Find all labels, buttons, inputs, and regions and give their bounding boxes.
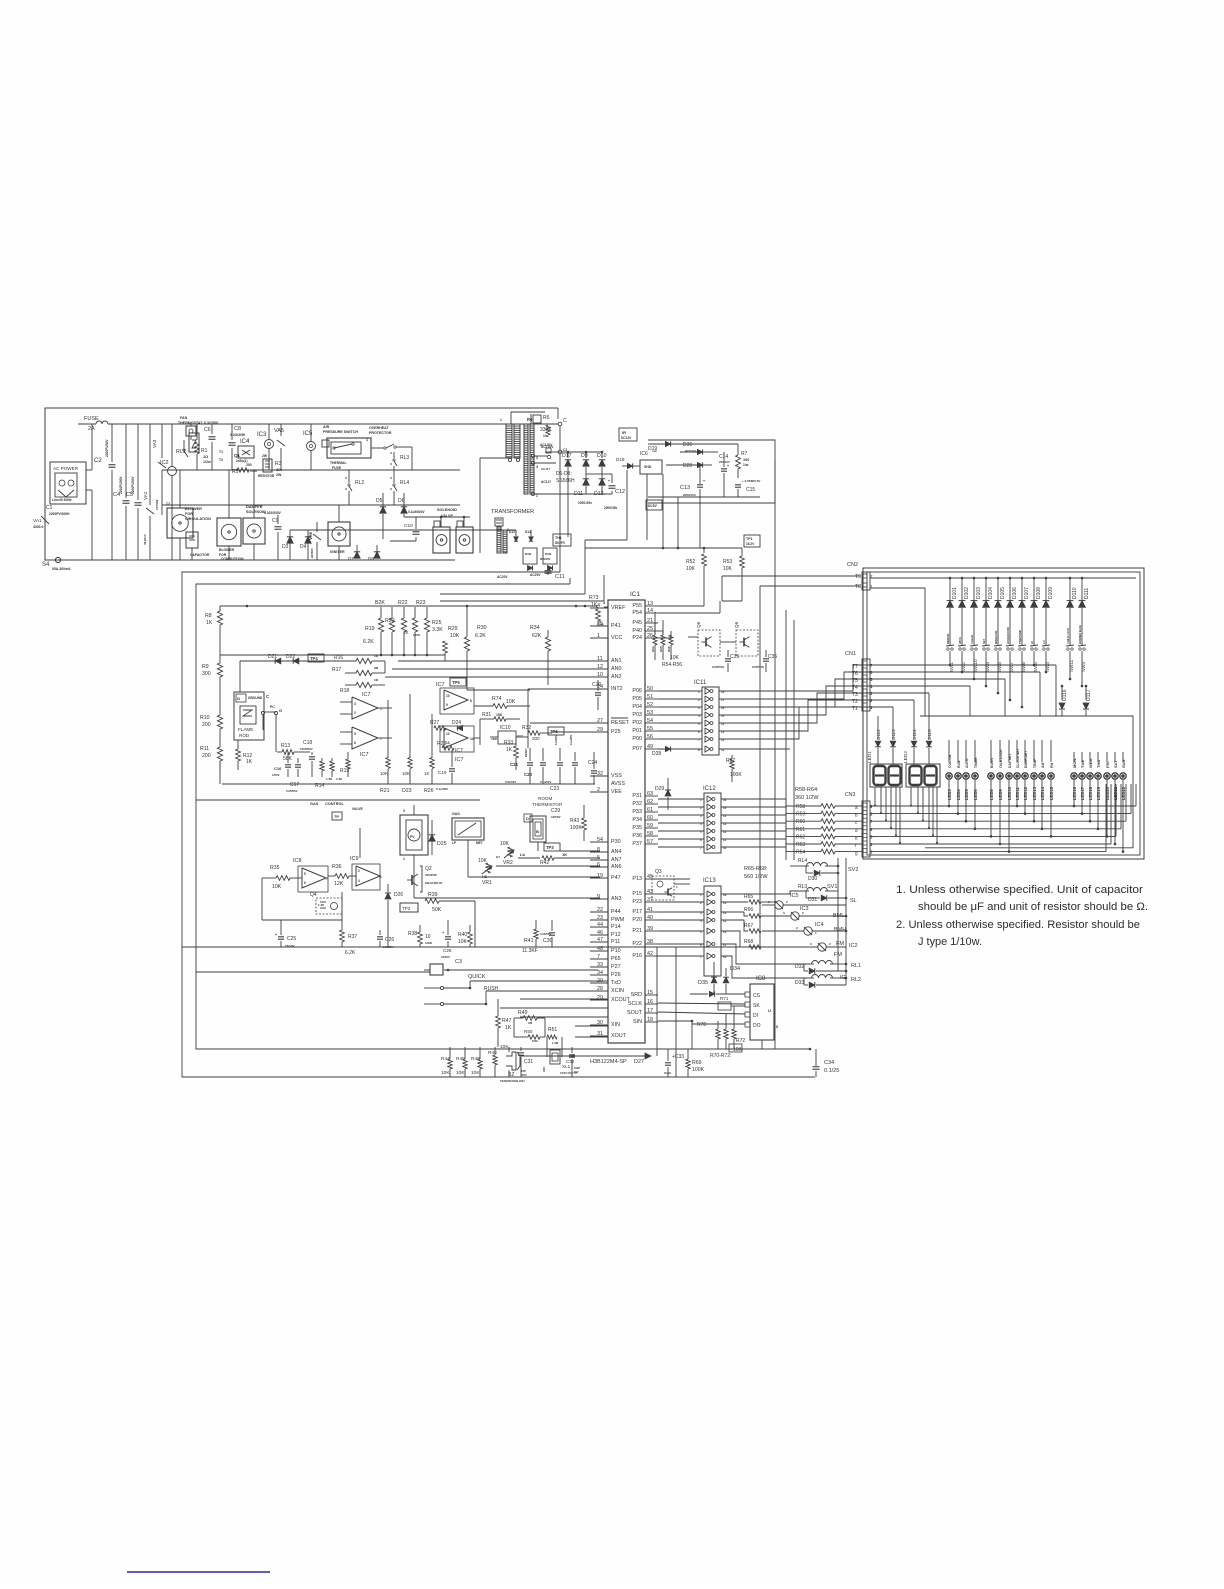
VREF wire / analog box top bbox=[220, 605, 596, 608]
op-amp IC7b bbox=[340, 727, 392, 758]
svg-text:LED14: LED14 bbox=[1040, 786, 1045, 800]
gas control valve solenoid bbox=[400, 809, 428, 861]
nested wire from transformer 1 bbox=[440, 572, 604, 601]
svg-text:VA1: VA1 bbox=[33, 518, 42, 524]
svg-text:H?: H? bbox=[496, 855, 500, 859]
indicator LED19 THU bbox=[1095, 752, 1101, 830]
boxed test point TP3 bbox=[544, 843, 560, 851]
note D1-D8 SS566H bbox=[556, 471, 575, 484]
resistor R32 200 bbox=[522, 725, 552, 741]
wire AN1 bbox=[398, 660, 590, 662]
svg-text:R65-R68:: R65-R68: bbox=[744, 866, 768, 872]
diode D106 bbox=[1007, 577, 1018, 618]
capacitor C4 bbox=[113, 424, 130, 560]
svg-text:D13: D13 bbox=[509, 530, 515, 534]
svg-text:R48: R48 bbox=[488, 1050, 497, 1056]
svg-text:D5: D5 bbox=[376, 498, 383, 504]
svg-text:D104: D104 bbox=[988, 587, 994, 599]
relay coil RL1 box bbox=[189, 433, 199, 452]
svg-text:10M: 10M bbox=[532, 1039, 538, 1043]
svg-text:1: 1 bbox=[403, 857, 405, 861]
svg-text:R74: R74 bbox=[492, 696, 502, 702]
resistor R41 C30 bbox=[522, 920, 555, 954]
svg-text:+: + bbox=[727, 464, 729, 468]
svg-text:C32: C32 bbox=[566, 1059, 575, 1064]
svg-text:3: 3 bbox=[810, 942, 812, 946]
svg-text:1/w: 1/w bbox=[543, 434, 549, 438]
svg-text:CN3: CN3 bbox=[845, 792, 855, 798]
svg-text:2200P/250V: 2200P/250V bbox=[105, 439, 109, 457]
svg-text:LED13: LED13 bbox=[1032, 786, 1037, 800]
bridge diode D10 bbox=[597, 452, 607, 474]
crystal XL1 bbox=[542, 1027, 577, 1075]
svg-text:Q4: Q4 bbox=[310, 892, 317, 898]
panel top bus T9 bbox=[870, 577, 1136, 579]
svg-text:R67: R67 bbox=[744, 923, 753, 929]
svg-text:2: 2 bbox=[354, 711, 356, 715]
svg-text:FOR: FOR bbox=[185, 512, 193, 516]
diode D111 bbox=[1079, 577, 1090, 618]
svg-text:C: C bbox=[563, 418, 567, 424]
svg-text:D111: D111 bbox=[1084, 588, 1090, 599]
relay coil RL1 with diode D32 bbox=[762, 952, 861, 974]
svg-text:XL1: XL1 bbox=[562, 1064, 571, 1069]
svg-text:4: 4 bbox=[870, 684, 873, 689]
svg-text:5: 5 bbox=[354, 732, 356, 736]
boxed label DC5V bbox=[646, 500, 662, 510]
svg-text:VEE: VEE bbox=[611, 789, 622, 795]
svg-text:C8: C8 bbox=[234, 426, 241, 432]
relay contact RL1 bbox=[176, 440, 188, 457]
svg-text:+C33: +C33 bbox=[672, 1054, 684, 1060]
relay contact RL2 bbox=[345, 477, 364, 491]
svg-text:1/50V: 1/50V bbox=[272, 773, 280, 777]
capacitor C36 bbox=[752, 650, 777, 672]
svg-text:1K: 1K bbox=[562, 852, 567, 857]
diode D3 bbox=[282, 530, 293, 560]
svg-text:16/50V: 16/50V bbox=[441, 955, 450, 959]
svg-text:1: 1 bbox=[536, 494, 538, 498]
svg-text:IC8: IC8 bbox=[293, 858, 302, 864]
indicator LED3 COL:ON bbox=[946, 740, 952, 807]
IC11 output stair wires to CN1 T lines bbox=[719, 665, 870, 749]
svg-text:D36: D36 bbox=[683, 442, 692, 448]
svg-text:100K: 100K bbox=[413, 633, 421, 637]
boxed label TP1 16.2V bbox=[744, 535, 760, 547]
svg-text:P06: P06 bbox=[632, 688, 642, 694]
resistor R38 10 1/2W bbox=[408, 925, 432, 947]
svg-text:P15: P15 bbox=[632, 891, 642, 897]
resistor R59 bbox=[796, 811, 862, 817]
wire horizontal y548 feeding pullups bbox=[585, 547, 742, 556]
svg-text:LP: LP bbox=[452, 841, 457, 845]
svg-text:C23: C23 bbox=[550, 786, 559, 792]
svg-text:6.3/250V: 6.3/250V bbox=[204, 421, 219, 425]
svg-text:P24: P24 bbox=[632, 635, 642, 641]
resistor R13 58K bbox=[277, 743, 310, 762]
wire primary to valve rail bbox=[480, 458, 508, 553]
wire P40 to R55 bbox=[658, 631, 663, 635]
svg-text:C20: C20 bbox=[592, 682, 601, 688]
svg-text:R14: R14 bbox=[315, 783, 324, 789]
svg-text:PRESSURE SWITCH: PRESSURE SWITCH bbox=[323, 430, 358, 434]
svg-text:10K: 10K bbox=[450, 633, 460, 639]
svg-text:THU: THU bbox=[1096, 760, 1101, 768]
capacitor C19 bbox=[436, 750, 455, 791]
svg-text:THERMAL: THERMAL bbox=[330, 461, 347, 465]
svg-text:C36: C36 bbox=[768, 654, 777, 660]
svg-text:P01: P01 bbox=[632, 728, 642, 734]
wire XOUT row bbox=[575, 1036, 608, 1038]
svg-text:FM: FM bbox=[836, 941, 844, 947]
capacitor C32 bbox=[566, 1047, 580, 1077]
resistor R34 62K bbox=[530, 625, 551, 685]
flame rod assembly bbox=[234, 692, 276, 740]
svg-text:1K: 1K bbox=[246, 759, 253, 765]
svg-text:AN0: AN0 bbox=[611, 666, 622, 672]
gas meter indicator bbox=[452, 812, 484, 845]
svg-text:3: 3 bbox=[783, 911, 785, 915]
switch common wire T8 bbox=[870, 588, 925, 716]
svg-text:SV2: SV2 bbox=[848, 867, 858, 873]
capacitor C15 bbox=[735, 479, 760, 497]
svg-text:P55: P55 bbox=[632, 603, 642, 609]
svg-text:IC8: IC8 bbox=[756, 976, 766, 982]
label 10K R54-R56 bbox=[662, 655, 682, 668]
capacitor C31 bbox=[518, 1047, 533, 1077]
resistor R29 10K bbox=[443, 626, 460, 661]
svg-text:P03: P03 bbox=[632, 712, 642, 718]
driver array IC13 bbox=[700, 878, 727, 976]
svg-text:TUE: TUE bbox=[1080, 760, 1085, 768]
diode D35 bbox=[690, 980, 745, 997]
label H3B122M4-SP D27 bbox=[560, 1056, 644, 1065]
svg-text:D3: D3 bbox=[282, 544, 289, 550]
svg-text:IC7: IC7 bbox=[436, 682, 445, 688]
ground bus y947 bbox=[182, 946, 810, 948]
svg-text:05A-300mA: 05A-300mA bbox=[52, 567, 71, 571]
svg-text:D33: D33 bbox=[795, 980, 804, 986]
svg-text:LED2: LED2 bbox=[903, 751, 909, 763]
driver array IC11 bbox=[694, 680, 725, 755]
resistor R15 bbox=[340, 752, 350, 777]
svg-text:R58: R58 bbox=[796, 804, 805, 810]
svg-text:AN1: AN1 bbox=[611, 658, 622, 664]
svg-text:C29: C29 bbox=[551, 808, 560, 814]
svg-text:100P: 100P bbox=[574, 1066, 580, 1070]
svg-text:OVERHEAT: OVERHEAT bbox=[369, 426, 390, 430]
igniter bbox=[328, 505, 350, 560]
transformer T1 primary winding bbox=[500, 418, 520, 462]
svg-text:R9: R9 bbox=[202, 664, 209, 670]
svg-text:Q3: Q3 bbox=[655, 869, 662, 875]
svg-text:R28: R28 bbox=[437, 741, 446, 747]
resistor R30 6.2K bbox=[464, 605, 486, 690]
svg-text:3: 3 bbox=[358, 879, 360, 883]
photocoupler IC2 bbox=[160, 424, 177, 560]
svg-text:R1: R1 bbox=[201, 448, 208, 454]
svg-text:RL2: RL2 bbox=[355, 480, 364, 486]
svg-text:C16: C16 bbox=[274, 766, 282, 771]
capacitor box for blower bbox=[186, 532, 210, 560]
svg-text:R72: R72 bbox=[736, 1038, 745, 1044]
svg-text:D108: D108 bbox=[1036, 587, 1042, 599]
svg-text:LED6: LED6 bbox=[973, 789, 978, 800]
IC1 right side pin labels bbox=[627, 601, 658, 1025]
indicator LED8 BURN bbox=[988, 740, 994, 838]
svg-text:C35: C35 bbox=[730, 654, 739, 660]
svg-text:P21: P21 bbox=[632, 928, 642, 934]
resistor R45 bbox=[456, 1047, 467, 1077]
wire bus across middle of power box bbox=[162, 470, 516, 530]
svg-text:1K: 1K bbox=[206, 620, 213, 626]
svg-text:P13: P13 bbox=[632, 876, 642, 882]
resistor R50 bbox=[514, 1026, 545, 1043]
svg-text:TxD: TxD bbox=[611, 980, 621, 986]
svg-text:200: 200 bbox=[532, 736, 540, 741]
resistor R8 1K bbox=[205, 607, 223, 655]
svg-text:T3: T3 bbox=[852, 692, 858, 698]
diode D101 bbox=[947, 577, 958, 618]
svg-text:XOUT: XOUT bbox=[611, 1033, 627, 1039]
wire XCOUT row bbox=[520, 1016, 608, 1018]
boxed test point TP4 bbox=[308, 654, 324, 662]
svg-text:Line40 60Hz: Line40 60Hz bbox=[52, 498, 72, 502]
svg-text:R8: R8 bbox=[205, 613, 212, 619]
svg-text:R21: R21 bbox=[380, 788, 390, 794]
svg-text:H3B122M4-SP: H3B122M4-SP bbox=[590, 1059, 627, 1065]
svg-text:LED10: LED10 bbox=[1007, 786, 1012, 800]
indicator LED22 SUN bbox=[1120, 752, 1126, 853]
svg-text:1K: 1K bbox=[505, 1025, 512, 1031]
boxed label TP bbox=[332, 812, 342, 820]
svg-text:R7: R7 bbox=[741, 451, 748, 457]
svg-text:1/w: 1/w bbox=[743, 463, 749, 467]
capacitor C30 resistor R40 bbox=[458, 925, 472, 947]
svg-text:RESET: RESET bbox=[611, 720, 630, 726]
transistor Q6a with bias resistors R54-R56 bbox=[651, 612, 720, 660]
relay coil RL2 with diode D33 bbox=[762, 975, 861, 988]
svg-text:IC4: IC4 bbox=[815, 922, 824, 928]
diode D117 bbox=[1083, 685, 1092, 716]
svg-text:+: + bbox=[608, 479, 610, 483]
svg-text:10K: 10K bbox=[723, 566, 733, 572]
svg-text:COMBUSTION: COMBUSTION bbox=[221, 557, 244, 561]
svg-text:BURNER BLUE: BURNER BLUE bbox=[1078, 625, 1082, 644]
svg-text:HI: HI bbox=[1030, 641, 1034, 644]
svg-text:2W: 2W bbox=[262, 454, 268, 458]
svg-text:R50: R50 bbox=[524, 1029, 533, 1034]
svg-text:VA6: VA6 bbox=[308, 531, 313, 540]
connector CN1 bbox=[845, 651, 870, 711]
resistor R46 bbox=[471, 1047, 482, 1077]
svg-text:IC7: IC7 bbox=[455, 748, 463, 754]
resistor R36 12K bbox=[328, 864, 356, 887]
varistor VA1 bbox=[33, 505, 49, 540]
svg-text:ROD: ROD bbox=[239, 733, 250, 738]
switch RUSH bbox=[424, 986, 608, 1006]
svg-text:AN3: AN3 bbox=[611, 896, 622, 902]
svg-text:VSS: VSS bbox=[611, 773, 622, 779]
wire P54 to R53 bbox=[658, 601, 720, 613]
svg-text:1: 1 bbox=[500, 418, 502, 422]
svg-text:R37: R37 bbox=[348, 934, 357, 940]
capacitor C18 bbox=[300, 740, 315, 777]
svg-text:TP: TP bbox=[334, 815, 339, 819]
svg-text:D106: D106 bbox=[1012, 587, 1018, 599]
svg-text:P05: P05 bbox=[632, 696, 642, 702]
key switch SW2 WICK bbox=[958, 618, 966, 673]
svg-text:C11: C11 bbox=[555, 574, 565, 580]
svg-text:2000/35v: 2000/35v bbox=[604, 506, 618, 510]
capacitor C29 bbox=[551, 808, 561, 819]
svg-text:P30: P30 bbox=[611, 839, 621, 845]
indicator LED20 FRI bbox=[1104, 752, 1110, 838]
resistor R53 10K pullup bbox=[723, 556, 744, 601]
svg-text:+: + bbox=[442, 931, 444, 935]
amp section wires bbox=[262, 850, 418, 920]
svg-text:AM: AM bbox=[1041, 763, 1045, 768]
svg-text:10K: 10K bbox=[686, 566, 696, 572]
svg-text:2700S9: 2700S9 bbox=[155, 499, 159, 510]
svg-text:1K: 1K bbox=[424, 771, 431, 776]
svg-text:2200PV/300H: 2200PV/300H bbox=[49, 512, 70, 516]
wire AN0 bbox=[392, 668, 590, 670]
resistor R58 bbox=[796, 804, 862, 810]
svg-text:R41: R41 bbox=[524, 938, 534, 944]
svg-text:10K: 10K bbox=[670, 655, 680, 661]
svg-text:PWM: PWM bbox=[611, 917, 625, 923]
diode D36 bbox=[680, 442, 718, 455]
svg-text:AC POWER: AC POWER bbox=[53, 466, 79, 471]
boxed label TH1 D02PV bbox=[553, 534, 571, 546]
svg-text:P34: P34 bbox=[632, 817, 642, 823]
svg-text:P12: P12 bbox=[611, 932, 621, 938]
svg-text:WICK: WICK bbox=[958, 637, 962, 644]
svg-text:0.1u/50V: 0.1u/50V bbox=[540, 780, 551, 784]
svg-text:1: 1 bbox=[870, 705, 873, 710]
svg-text:Q6: Q6 bbox=[734, 621, 739, 628]
resistor R48 10K bbox=[488, 1044, 509, 1077]
resistor R6 330K bbox=[527, 415, 554, 449]
fuse F1 2A bbox=[78, 416, 558, 432]
svg-text:D28: D28 bbox=[652, 751, 661, 757]
svg-text:0.1u5/630V: 0.1u5/630V bbox=[408, 510, 425, 514]
svg-text:C30: C30 bbox=[543, 938, 553, 944]
dc box bottom bus bbox=[648, 444, 760, 497]
svg-text:D102: D102 bbox=[964, 587, 970, 599]
resistor R31 15K bbox=[480, 712, 520, 721]
svg-text:R73: R73 bbox=[589, 595, 599, 601]
boxed test point TP6 bbox=[548, 727, 564, 735]
svg-text:R39: R39 bbox=[428, 892, 438, 898]
svg-text:6: 6 bbox=[870, 827, 873, 832]
svg-text:R30: R30 bbox=[477, 625, 487, 631]
svg-text:R54: R54 bbox=[651, 646, 655, 652]
svg-text:R19: R19 bbox=[365, 626, 375, 632]
blower for circulation motor M1 bbox=[166, 470, 211, 560]
svg-text:AVSS: AVSS bbox=[611, 781, 625, 787]
varistor VA6 bbox=[308, 522, 321, 560]
resistor R35 10K bbox=[262, 865, 302, 890]
svg-text:IC2: IC2 bbox=[849, 943, 858, 949]
svg-text:2: 2 bbox=[358, 869, 360, 873]
svg-text:C13: C13 bbox=[680, 485, 690, 491]
svg-text:6: 6 bbox=[354, 741, 356, 745]
svg-text:D34: D34 bbox=[730, 966, 740, 972]
svg-text:AN7: AN7 bbox=[611, 857, 622, 863]
svg-text:DVB: DVB bbox=[525, 552, 532, 556]
svg-text:R64: R64 bbox=[796, 850, 805, 856]
svg-text:0.1u/50V: 0.1u/50V bbox=[570, 735, 573, 745]
resistor R7 bbox=[736, 444, 750, 478]
wire P55 to R52 bbox=[658, 605, 704, 606]
svg-text:TRANSFORMER: TRANSFORMER bbox=[491, 509, 534, 515]
svg-text:BLOWER: BLOWER bbox=[219, 548, 235, 552]
capacitor C3 coupling box bbox=[424, 959, 598, 975]
capacitor C17 bbox=[286, 758, 301, 793]
display module LED1 bbox=[867, 751, 902, 787]
resistor R74 10K bbox=[474, 696, 530, 708]
svg-text:3: 3 bbox=[536, 465, 538, 469]
resistor R63 bbox=[796, 842, 862, 848]
photocoupler IC5 bbox=[303, 424, 316, 470]
svg-text:800/20V: 800/20V bbox=[540, 557, 551, 561]
wire to CN2 T8 bbox=[760, 586, 860, 947]
diode D115 bbox=[926, 716, 932, 764]
svg-text:2. Unless otherwise specified.: 2. Unless otherwise specified. Resistor … bbox=[896, 919, 1140, 931]
svg-text:10K: 10K bbox=[478, 858, 488, 864]
svg-text:12: 12 bbox=[446, 732, 450, 736]
resistor R73 1K on VREF bbox=[589, 595, 608, 627]
svg-text:R68: R68 bbox=[744, 939, 753, 945]
triac driver IC4 with Q1 bbox=[219, 438, 254, 463]
wire to CN2 T9 bbox=[722, 576, 860, 601]
varistor VA2 bbox=[143, 424, 154, 560]
svg-text:TP1: TP1 bbox=[746, 537, 753, 541]
eeprom IC8 serial bbox=[745, 976, 778, 1040]
svg-text:VREF: VREF bbox=[611, 605, 626, 611]
svg-text:T6: T6 bbox=[852, 671, 858, 677]
svg-text:GROUND: GROUND bbox=[248, 696, 263, 700]
svg-text:0.022/530V: 0.022/530V bbox=[264, 511, 282, 515]
svg-text:6.2K: 6.2K bbox=[475, 633, 486, 639]
svg-text:HOUR,DOWN: HOUR,DOWN bbox=[1006, 627, 1010, 644]
svg-text:SHD: SHD bbox=[644, 465, 652, 469]
resistor R62 bbox=[796, 834, 862, 840]
svg-text:C10: C10 bbox=[404, 523, 413, 529]
svg-text:P33: P33 bbox=[632, 809, 642, 815]
svg-text:50V: 50V bbox=[574, 1070, 579, 1074]
svg-text:10K: 10K bbox=[272, 884, 282, 890]
svg-text:R66: R66 bbox=[744, 907, 753, 913]
svg-text:D32: D32 bbox=[795, 964, 804, 970]
svg-text:R43: R43 bbox=[570, 818, 579, 824]
key switch SW9 SET bbox=[982, 618, 990, 687]
svg-text:100K: 100K bbox=[570, 825, 582, 831]
svg-text:CN2: CN2 bbox=[847, 562, 858, 568]
svg-text:RL4: RL4 bbox=[400, 480, 409, 486]
gas control section label bbox=[310, 802, 364, 811]
diode D13 bbox=[509, 530, 518, 541]
svg-text:R70-R72:: R70-R72: bbox=[710, 1053, 731, 1059]
svg-text:2000/10V: 2000/10V bbox=[683, 493, 696, 497]
svg-text:WED: WED bbox=[1088, 759, 1093, 768]
svg-text:TRANSDUCER-2001: TRANSDUCER-2001 bbox=[500, 1079, 525, 1083]
svg-text:AC120V: AC120V bbox=[541, 445, 554, 449]
indicator LED4 RUN bbox=[955, 740, 961, 815]
svg-text:7: 7 bbox=[326, 877, 328, 881]
